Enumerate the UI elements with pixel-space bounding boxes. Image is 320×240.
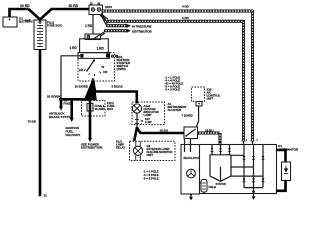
svg-text:FUSE: FUSE [64, 101, 71, 105]
svg-text:15 BK/RD: 15 BK/RD [75, 85, 90, 89]
svg-text:7 BU/RD: 7 BU/RD [182, 113, 193, 117]
svg-text:FUSE BOX: FUSE BOX [47, 24, 62, 28]
svg-text:16 AMP: 16 AMP [95, 107, 105, 111]
svg-text:20 RD/BK: 20 RD/BK [47, 94, 62, 98]
svg-text:16 BU: 16 BU [160, 128, 169, 132]
svg-text:4 RD: 4 RD [182, 4, 190, 8]
svg-text:STATOR: STATOR [216, 182, 226, 186]
svg-text:15R: 15R [103, 71, 108, 74]
svg-text:5 RD/16: 5 RD/16 [112, 85, 123, 89]
svg-text:DELIVERY: DELIVERY [66, 133, 81, 137]
svg-text:HI PRESSURE: HI PRESSURE [132, 25, 152, 29]
svg-text:1 RD: 1 RD [70, 46, 78, 50]
svg-text:BAT: BAT [25, 19, 31, 23]
svg-text:BRAKE SYSTEM: BRAKE SYSTEM [49, 115, 73, 119]
svg-text:16 BU: 16 BU [205, 128, 214, 132]
svg-text:(15/50): (15/50) [117, 67, 126, 71]
svg-text:30 RD: 30 RD [69, 4, 79, 8]
svg-text:CLUSTER: CLUSTER [168, 108, 183, 112]
svg-text:UNIT: UNIT [207, 97, 214, 101]
svg-text:1 RD: 1 RD [85, 24, 93, 28]
svg-text:RELAY: RELAY [116, 146, 125, 150]
svg-text:70 BK: 70 BK [28, 119, 37, 123]
svg-text:1 RD: 1 RD [97, 47, 105, 51]
svg-text:4 RD: 4 RD [182, 16, 190, 20]
svg-text:DISTRIBUTION: DISTRIBUTION [81, 146, 102, 150]
svg-text:DISTRIBUTOR: DISTRIBUTOR [132, 30, 153, 34]
svg-text:16Z: 16Z [79, 69, 84, 72]
svg-text:-3 = 3 POLE: -3 = 3 POLE [165, 88, 181, 92]
svg-text:X4/10: X4/10 [105, 5, 113, 9]
svg-text:1.2W: 1.2W [145, 120, 152, 124]
svg-text:31: 31 [44, 194, 48, 198]
svg-text:30 RD: 30 RD [20, 4, 30, 8]
svg-text:UNIT: UNIT [147, 153, 154, 157]
svg-text:REGULATOR: REGULATOR [184, 156, 200, 160]
svg-text:BOX: BOX [107, 107, 113, 111]
svg-text:FIELD: FIELD [209, 185, 217, 189]
svg-text:-6 = 8 POLE: -6 = 8 POLE [143, 177, 159, 181]
